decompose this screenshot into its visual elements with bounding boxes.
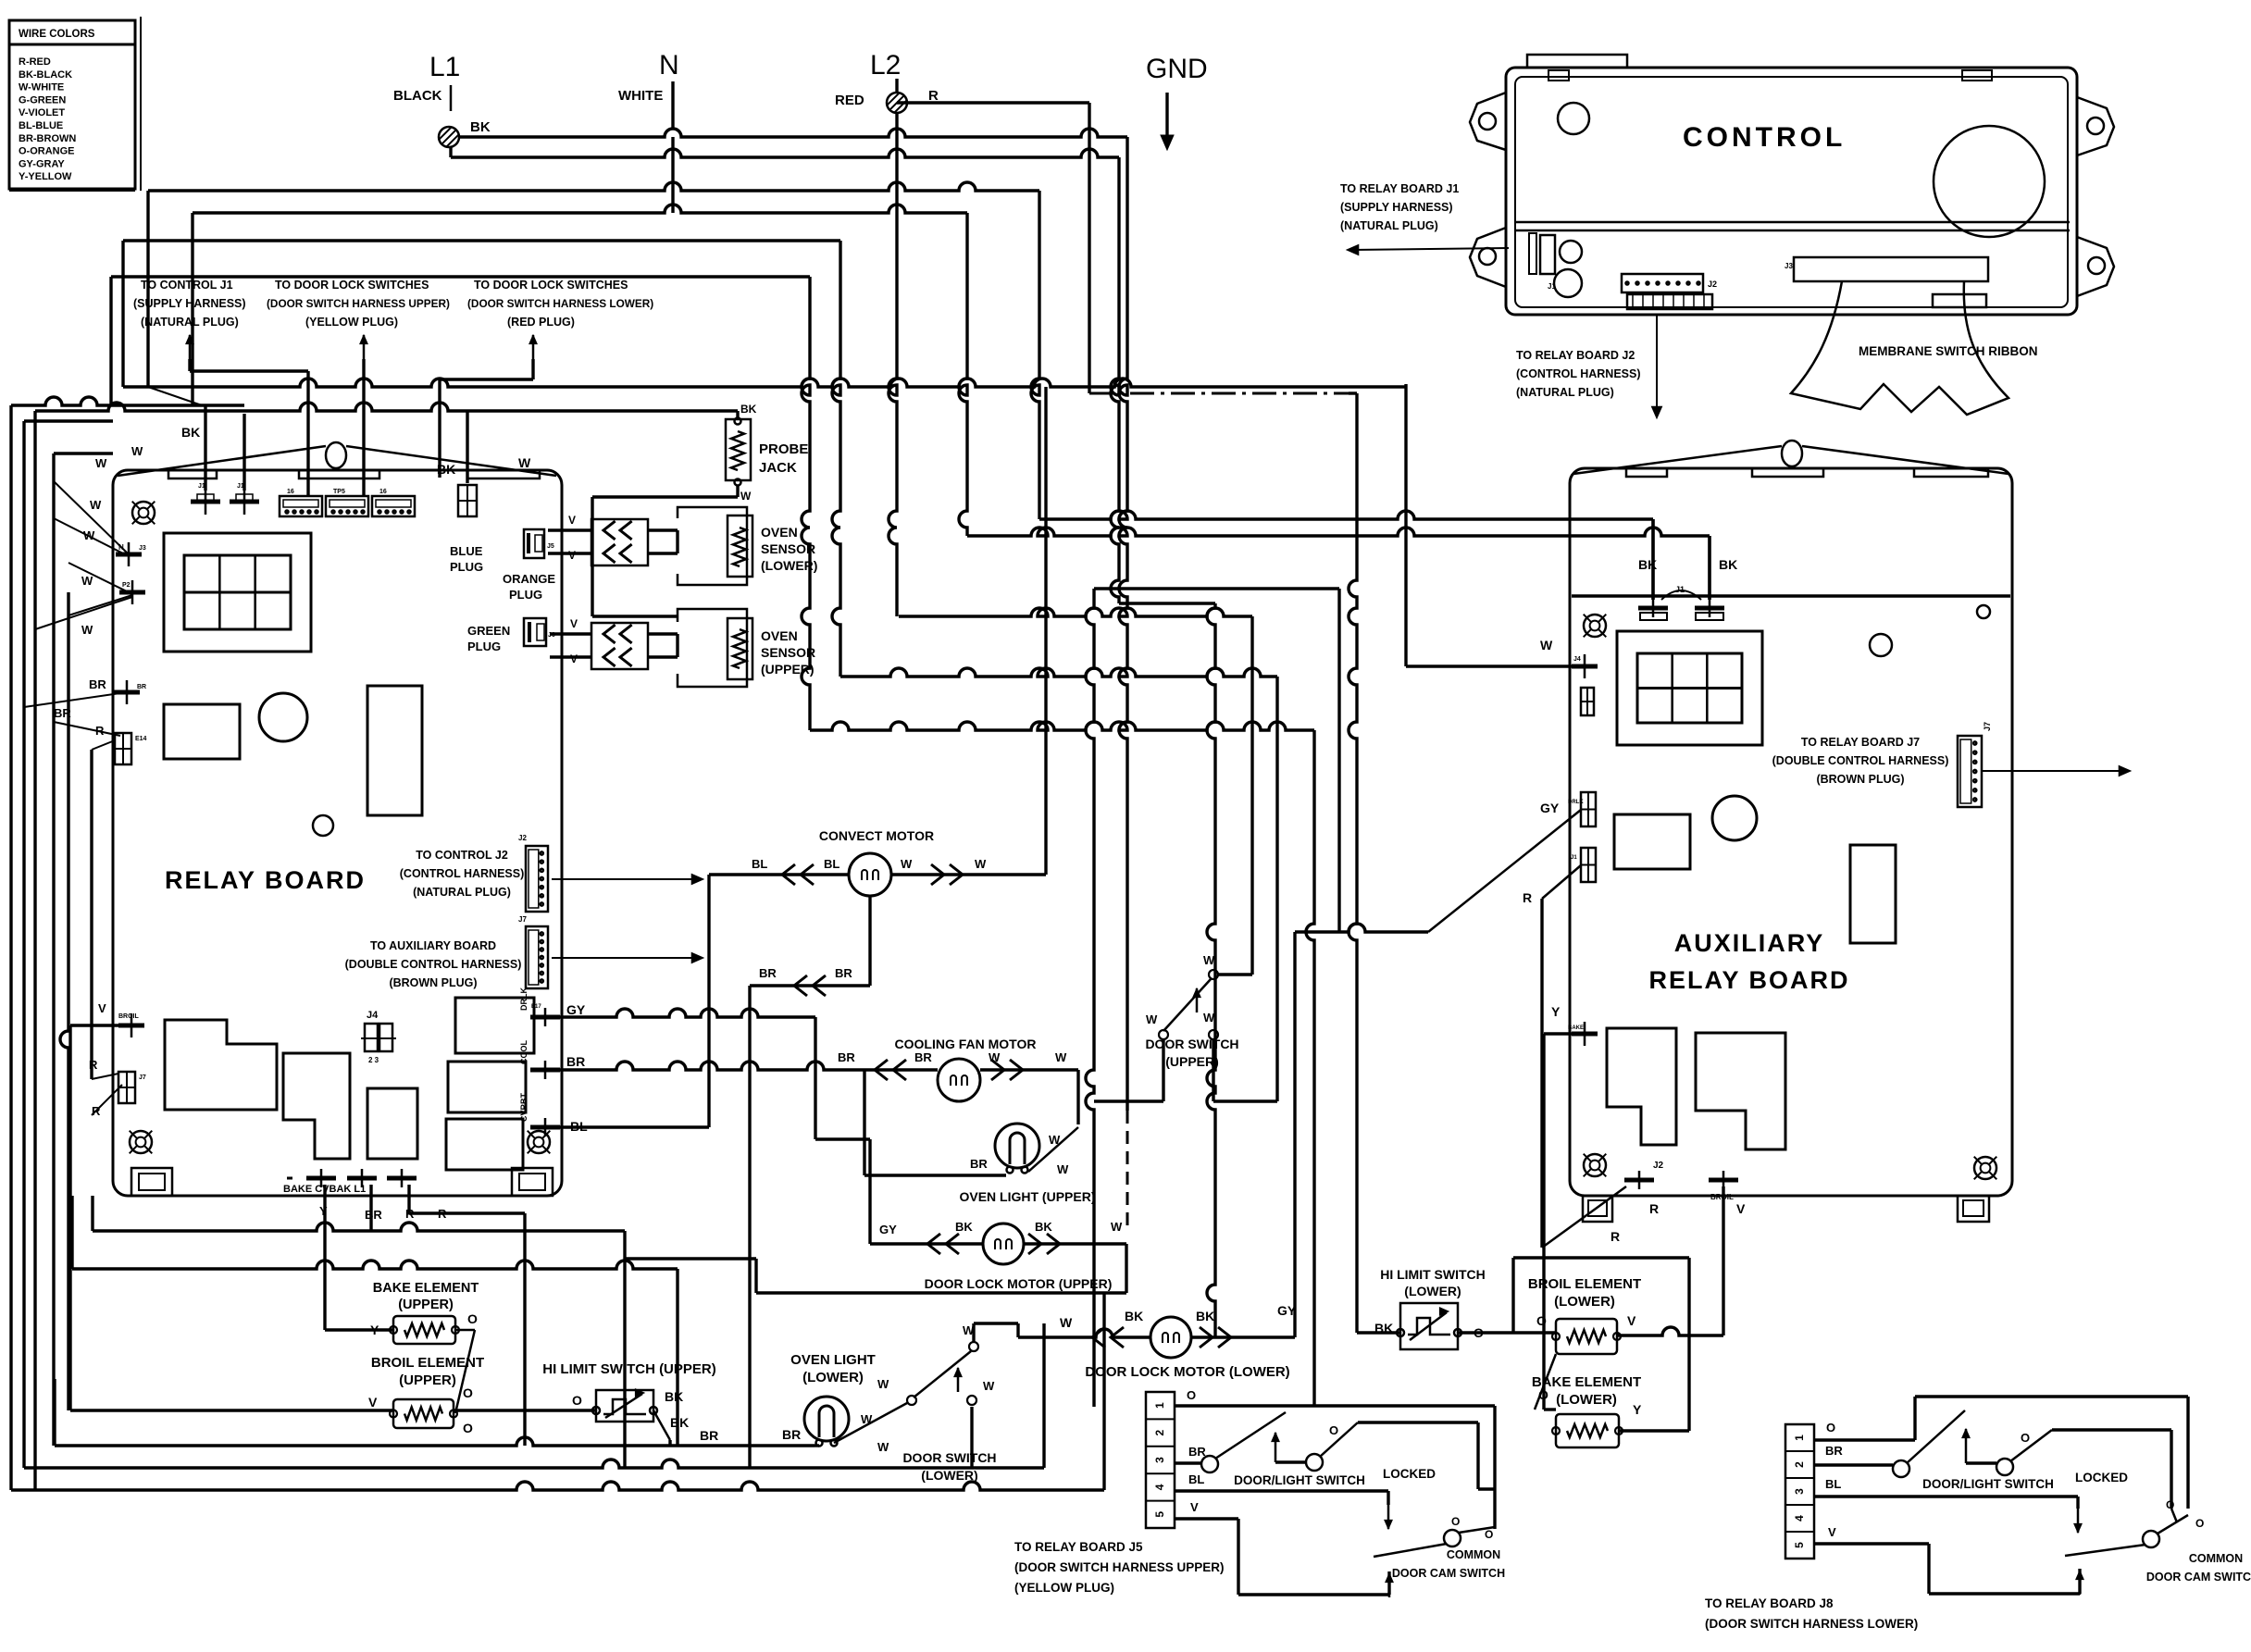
svg-text:(DOUBLE CONTROL HARNESS): (DOUBLE CONTROL HARNESS): [1772, 754, 1949, 767]
svg-text:TO RELAY BOARD J7: TO RELAY BOARD J7: [1801, 736, 1920, 749]
svg-text:LOCKED: LOCKED: [1383, 1467, 1436, 1481]
svg-text:J1: J1: [1571, 855, 1577, 861]
svg-text:(UPPER): (UPPER): [1165, 1054, 1219, 1069]
svg-text:BR: BR: [1188, 1445, 1206, 1459]
svg-text:W: W: [1146, 1012, 1158, 1026]
svg-text:BR: BR: [54, 706, 71, 720]
svg-text:W: W: [877, 1377, 889, 1391]
svg-text:BR: BR: [89, 677, 106, 691]
svg-text:G-GREEN: G-GREEN: [19, 94, 66, 106]
svg-text:BR: BR: [137, 684, 146, 690]
svg-text:GY: GY: [879, 1223, 897, 1236]
svg-text:BR: BR: [1825, 1444, 1843, 1458]
svg-text:16: 16: [287, 489, 294, 495]
svg-text:W: W: [95, 456, 107, 470]
svg-text:BK: BK: [670, 1415, 689, 1430]
svg-text:L2: L2: [870, 50, 901, 81]
svg-text:Y-YELLOW: Y-YELLOW: [19, 171, 72, 182]
svg-text:W: W: [81, 574, 93, 588]
svg-text:O: O: [467, 1311, 478, 1326]
svg-text:TO CONTROL J2: TO CONTROL J2: [416, 849, 508, 862]
svg-text:BK: BK: [1196, 1309, 1214, 1323]
svg-text:DOOR/LIGHT SWITCH: DOOR/LIGHT SWITCH: [1922, 1477, 2054, 1491]
svg-text:W: W: [1111, 1220, 1123, 1234]
svg-text:(DOOR SWITCH HARNESS UPPER): (DOOR SWITCH HARNESS UPPER): [1014, 1560, 1225, 1574]
svg-text:J3: J3: [1785, 262, 1793, 270]
svg-text:O: O: [1329, 1423, 1338, 1437]
svg-text:PLUG: PLUG: [509, 588, 542, 602]
svg-text:V: V: [570, 652, 578, 665]
svg-text:W: W: [83, 528, 95, 542]
svg-text:BR: BR: [566, 1054, 585, 1069]
svg-text:RELAY BOARD: RELAY BOARD: [1648, 966, 1849, 994]
svg-text:BROIL ELEMENT: BROIL ELEMENT: [1528, 1276, 1641, 1292]
svg-text:R: R: [89, 1058, 98, 1072]
svg-text:V: V: [1190, 1500, 1199, 1514]
svg-text:R: R: [1611, 1229, 1620, 1244]
svg-text:3: 3: [1153, 1457, 1166, 1463]
svg-text:J2: J2: [518, 834, 527, 842]
svg-text:COMMON: COMMON: [1447, 1548, 1500, 1561]
svg-text:O: O: [1485, 1528, 1493, 1541]
svg-text:V: V: [1736, 1201, 1746, 1216]
svg-text:(RED PLUG): (RED PLUG): [507, 316, 575, 329]
svg-text:BR-BROWN: BR-BROWN: [19, 133, 76, 144]
svg-text:BL: BL: [1188, 1472, 1204, 1486]
svg-text:DRLK: DRLK: [1568, 800, 1584, 805]
svg-text:BK: BK: [1125, 1309, 1143, 1323]
svg-text:RED: RED: [835, 93, 864, 108]
svg-text:O-ORANGE: O-ORANGE: [19, 146, 75, 157]
svg-text:J7: J7: [139, 1074, 146, 1081]
svg-text:1: 1: [1793, 1435, 1806, 1441]
svg-text:DRLK: DRLK: [519, 987, 529, 1011]
svg-text:WIRE COLORS: WIRE COLORS: [19, 29, 95, 40]
svg-text:BR: BR: [759, 966, 777, 980]
svg-text:BAKE ELEMENT: BAKE ELEMENT: [1532, 1374, 1641, 1390]
svg-text:V: V: [1627, 1313, 1636, 1328]
svg-text:(SUPPLY HARNESS): (SUPPLY HARNESS): [1340, 201, 1453, 214]
svg-text:4: 4: [1793, 1515, 1806, 1522]
svg-text:(UPPER): (UPPER): [399, 1373, 456, 1388]
svg-text:(BROWN PLUG): (BROWN PLUG): [1816, 773, 1904, 786]
svg-text:BR: BR: [700, 1428, 718, 1443]
svg-text:(YELLOW PLUG): (YELLOW PLUG): [305, 316, 398, 329]
svg-text:COOL: COOL: [519, 1039, 529, 1064]
svg-text:(CONTROL HARNESS): (CONTROL HARNESS): [1516, 367, 1641, 380]
svg-text:R: R: [1649, 1201, 1659, 1216]
svg-text:V: V: [568, 549, 576, 562]
svg-text:TP5: TP5: [333, 489, 345, 495]
svg-text:O: O: [1536, 1313, 1547, 1328]
svg-text:O: O: [1826, 1421, 1835, 1435]
svg-text:OVEN LIGHT: OVEN LIGHT: [790, 1352, 876, 1368]
svg-text:J4: J4: [367, 1010, 379, 1021]
svg-text:W: W: [975, 857, 987, 871]
svg-text:W: W: [1540, 638, 1553, 652]
svg-text:O: O: [463, 1385, 473, 1400]
svg-text:W: W: [983, 1379, 995, 1393]
svg-text:TO CONTROL J1: TO CONTROL J1: [141, 279, 233, 292]
svg-text:(LOWER): (LOWER): [1556, 1392, 1617, 1408]
svg-text:BL: BL: [1825, 1477, 1841, 1491]
svg-text:TO RELAY BOARD J5: TO RELAY BOARD J5: [1014, 1540, 1143, 1554]
svg-text:(YELLOW PLUG): (YELLOW PLUG): [1014, 1581, 1114, 1595]
svg-text:BK: BK: [1719, 557, 1737, 572]
svg-text:W: W: [1060, 1315, 1073, 1330]
svg-text:W: W: [1203, 953, 1215, 967]
svg-text:O: O: [2195, 1517, 2204, 1530]
svg-text:BROIL ELEMENT: BROIL ELEMENT: [371, 1355, 484, 1371]
svg-text:J2: J2: [1653, 1161, 1664, 1171]
svg-text:W: W: [81, 623, 93, 637]
svg-text:DOOR CAM SWITCH: DOOR CAM SWITCH: [1392, 1567, 1505, 1580]
svg-text:MEMBRANE SWITCH RIBBON: MEMBRANE SWITCH RIBBON: [1859, 344, 2038, 358]
svg-text:RELAY BOARD: RELAY BOARD: [165, 866, 366, 894]
svg-text:V: V: [98, 1001, 106, 1015]
svg-text:DOOR CAM SWITCH: DOOR CAM SWITCH: [2146, 1571, 2251, 1584]
svg-text:(DOOR SWITCH HARNESS LOWER): (DOOR SWITCH HARNESS LOWER): [1705, 1617, 1918, 1631]
svg-text:GY: GY: [1540, 801, 1560, 815]
svg-text:BAKE: BAKE: [1568, 1025, 1584, 1031]
svg-text:BR: BR: [835, 966, 852, 980]
svg-text:W: W: [901, 857, 913, 871]
svg-text:E14: E14: [135, 736, 147, 742]
svg-text:(LOWER): (LOWER): [761, 558, 817, 573]
svg-text:DOOR SWITCH: DOOR SWITCH: [1145, 1037, 1238, 1051]
svg-text:BK: BK: [665, 1389, 683, 1404]
svg-text:5: 5: [1153, 1511, 1166, 1518]
svg-text:4: 4: [1153, 1484, 1166, 1490]
svg-text:O: O: [2021, 1431, 2030, 1445]
svg-text:(NATURAL PLUG): (NATURAL PLUG): [1340, 219, 1438, 232]
svg-text:JACK: JACK: [759, 460, 797, 476]
svg-text:(DOOR SWITCH HARNESS UPPER): (DOOR SWITCH HARNESS UPPER): [267, 297, 450, 310]
svg-text:V-VIOLET: V-VIOLET: [19, 107, 65, 118]
svg-text:W: W: [90, 498, 102, 512]
svg-text:GREEN: GREEN: [467, 624, 510, 638]
svg-text:CONVECT MOTOR: CONVECT MOTOR: [819, 828, 934, 843]
svg-text:CVRBT: CVRBT: [519, 1092, 529, 1122]
svg-text:J3: J3: [139, 545, 146, 552]
svg-text:1: 1: [1153, 1402, 1166, 1409]
svg-text:COOLING FAN MOTOR: COOLING FAN MOTOR: [895, 1037, 1037, 1051]
svg-text:W: W: [1057, 1162, 1069, 1176]
svg-text:W-WHITE: W-WHITE: [19, 82, 64, 93]
svg-text:OVEN: OVEN: [761, 525, 798, 540]
svg-text:PLUG: PLUG: [467, 640, 501, 653]
svg-text:BK: BK: [740, 403, 757, 416]
svg-text:L1: L1: [429, 52, 460, 82]
svg-text:GY-GRAY: GY-GRAY: [19, 158, 65, 169]
svg-text:TO RELAY BOARD J1: TO RELAY BOARD J1: [1340, 182, 1459, 195]
svg-text:BLACK: BLACK: [393, 88, 442, 104]
svg-text:2: 2: [1793, 1461, 1806, 1468]
svg-text:(SUPPLY HARNESS): (SUPPLY HARNESS): [133, 297, 246, 310]
svg-text:DOOR LOCK MOTOR (UPPER): DOOR LOCK MOTOR (UPPER): [925, 1276, 1113, 1291]
svg-text:J4: J4: [1573, 656, 1581, 663]
svg-text:W: W: [518, 455, 531, 470]
svg-text:BL-BLUE: BL-BLUE: [19, 120, 63, 131]
svg-text:2: 2: [1153, 1429, 1166, 1435]
svg-text:2 3: 2 3: [368, 1056, 379, 1064]
svg-text:O: O: [2166, 1498, 2174, 1511]
svg-text:W: W: [877, 1440, 889, 1454]
svg-text:BR: BR: [365, 1208, 382, 1222]
svg-text:J1: J1: [1675, 585, 1685, 594]
svg-text:SENSOR: SENSOR: [761, 541, 815, 556]
svg-text:O: O: [572, 1393, 582, 1408]
svg-text:TO AUXILIARY BOARD: TO AUXILIARY BOARD: [370, 939, 496, 952]
svg-text:BK: BK: [955, 1220, 973, 1234]
svg-text:BK: BK: [470, 119, 491, 135]
svg-text:TO DOOR LOCK SWITCHES: TO DOOR LOCK SWITCHES: [474, 279, 628, 292]
svg-text:(BROWN PLUG): (BROWN PLUG): [389, 976, 477, 989]
svg-text:J1: J1: [1548, 282, 1556, 291]
svg-text:J7: J7: [1983, 722, 1992, 731]
svg-text:BROIL: BROIL: [118, 1013, 140, 1020]
svg-text:(NATURAL PLUG): (NATURAL PLUG): [413, 886, 511, 899]
svg-text:R-RED: R-RED: [19, 56, 51, 68]
svg-text:BLUE: BLUE: [450, 544, 483, 558]
svg-text:DOOR SWITCH: DOOR SWITCH: [902, 1450, 996, 1465]
svg-text:BL: BL: [824, 857, 839, 871]
svg-text:PROBE: PROBE: [759, 441, 808, 457]
svg-text:BR: BR: [970, 1157, 988, 1171]
svg-text:ORANGE: ORANGE: [503, 572, 555, 586]
svg-text:(NATURAL PLUG): (NATURAL PLUG): [141, 316, 239, 329]
svg-text:(NATURAL PLUG): (NATURAL PLUG): [1516, 386, 1614, 399]
svg-text:HI LIMIT SWITCH (UPPER): HI LIMIT SWITCH (UPPER): [542, 1361, 716, 1377]
svg-text:W: W: [740, 490, 752, 503]
svg-text:(LOWER): (LOWER): [802, 1370, 864, 1385]
svg-text:DOOR LOCK MOTOR (LOWER): DOOR LOCK MOTOR (LOWER): [1085, 1364, 1289, 1380]
svg-text:(DOOR SWITCH HARNESS LOWER): (DOOR SWITCH HARNESS LOWER): [467, 297, 653, 310]
svg-text:BK: BK: [1035, 1220, 1052, 1234]
svg-text:V: V: [1828, 1525, 1836, 1539]
svg-text:V: V: [568, 514, 576, 527]
svg-text:WHITE: WHITE: [618, 88, 663, 104]
svg-text:TO RELAY BOARD J8: TO RELAY BOARD J8: [1705, 1596, 1834, 1610]
svg-text:E17: E17: [531, 1004, 541, 1010]
svg-text:W: W: [131, 444, 143, 458]
svg-text:HI LIMIT SWITCH: HI LIMIT SWITCH: [1380, 1267, 1486, 1282]
svg-text:W: W: [1203, 1011, 1215, 1025]
svg-text:(UPPER): (UPPER): [761, 662, 815, 677]
svg-text:O: O: [1187, 1388, 1196, 1402]
svg-text:W: W: [989, 1050, 1001, 1064]
svg-text:P2: P2: [122, 582, 131, 589]
svg-text:O: O: [463, 1421, 473, 1435]
svg-text:W: W: [1055, 1050, 1067, 1064]
svg-text:Y: Y: [1551, 1004, 1561, 1019]
svg-text:J2: J2: [1708, 279, 1717, 289]
svg-text:J5: J5: [547, 543, 554, 550]
svg-text:SENSOR: SENSOR: [761, 645, 815, 660]
svg-text:O: O: [1451, 1515, 1460, 1528]
svg-text:(CONTROL HARNESS): (CONTROL HARNESS): [400, 867, 525, 880]
svg-text:Y: Y: [1633, 1402, 1642, 1417]
svg-text:(LOWER): (LOWER): [1404, 1284, 1461, 1298]
svg-text:J7: J7: [518, 915, 527, 924]
svg-text:(UPPER): (UPPER): [398, 1298, 454, 1312]
svg-text:(LOWER): (LOWER): [921, 1468, 977, 1483]
svg-text:CONTROL: CONTROL: [1683, 122, 1846, 153]
svg-text:TO DOOR LOCK SWITCHES: TO DOOR LOCK SWITCHES: [275, 279, 429, 292]
svg-text:GY: GY: [566, 1002, 586, 1017]
svg-text:PLUG: PLUG: [450, 560, 483, 574]
svg-text:BR: BR: [914, 1050, 932, 1064]
svg-text:TO RELAY BOARD J2: TO RELAY BOARD J2: [1516, 349, 1635, 362]
svg-text:BAKE ELEMENT: BAKE ELEMENT: [373, 1281, 479, 1296]
svg-text:V: V: [570, 617, 578, 630]
svg-text:GND: GND: [1146, 54, 1208, 84]
svg-text:16: 16: [379, 489, 387, 495]
svg-text:BK: BK: [181, 425, 200, 440]
svg-text:5: 5: [1793, 1542, 1806, 1548]
svg-text:BR: BR: [782, 1427, 801, 1442]
svg-text:OVEN LIGHT (UPPER): OVEN LIGHT (UPPER): [959, 1189, 1095, 1204]
svg-text:OVEN: OVEN: [761, 628, 798, 643]
svg-text:3: 3: [1793, 1488, 1806, 1495]
svg-text:AUXILIARY: AUXILIARY: [1674, 929, 1825, 957]
svg-text:LOCKED: LOCKED: [2075, 1471, 2128, 1484]
svg-text:R: R: [1523, 890, 1532, 905]
svg-text:V: V: [368, 1395, 378, 1410]
svg-text:(LOWER): (LOWER): [1554, 1294, 1615, 1310]
svg-text:BK-BLACK: BK-BLACK: [19, 69, 72, 81]
svg-text:BR: BR: [838, 1050, 855, 1064]
svg-text:DOOR/LIGHT SWITCH: DOOR/LIGHT SWITCH: [1234, 1473, 1365, 1487]
svg-text:(DOUBLE CONTROL HARNESS): (DOUBLE CONTROL HARNESS): [345, 958, 522, 971]
svg-text:BL: BL: [752, 857, 767, 871]
svg-text:N: N: [659, 50, 679, 81]
svg-text:COMMON: COMMON: [2189, 1552, 2243, 1565]
